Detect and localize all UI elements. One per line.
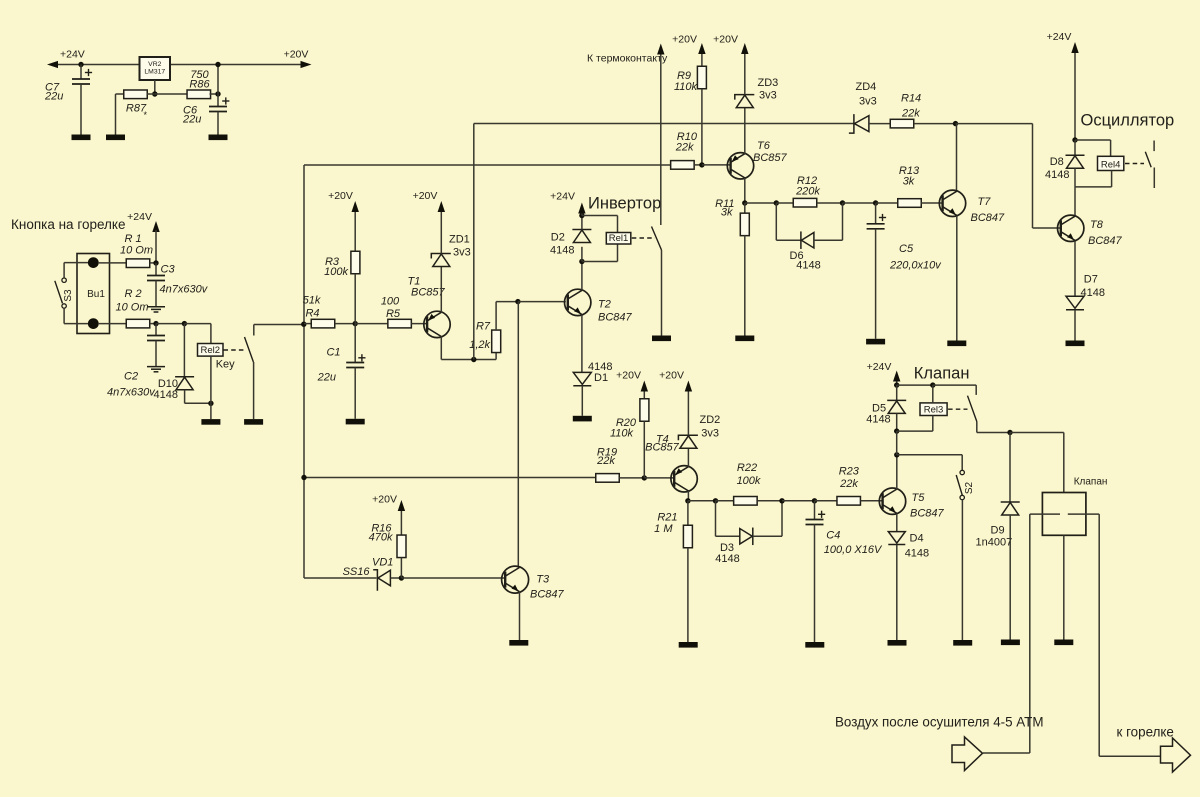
svg-text:D7: D7 bbox=[1084, 274, 1098, 286]
capacitor C3 bbox=[147, 276, 165, 281]
wire R87 left bbox=[116, 93, 125, 95]
wire R22 right to node bbox=[757, 500, 782, 502]
svg-text:C2: C2 bbox=[124, 371, 138, 383]
ground S2 bbox=[953, 640, 972, 646]
svg-text:R 2: R 2 bbox=[124, 288, 141, 300]
diode D7 bbox=[1066, 296, 1084, 309]
svg-text:10 Om: 10 Om bbox=[120, 245, 153, 257]
ground T5 D4 bbox=[888, 640, 907, 646]
svg-text:100k: 100k bbox=[737, 475, 761, 487]
resistor R87 bbox=[124, 90, 148, 99]
svg-text:BC847: BC847 bbox=[598, 312, 633, 324]
wire Rel1 contact to ground bbox=[661, 250, 663, 336]
svg-text:D2: D2 bbox=[551, 232, 565, 244]
node R22 left bbox=[713, 498, 718, 503]
wire R2 to node bbox=[150, 323, 156, 325]
power arrow +24V left bbox=[47, 61, 58, 68]
wire +24V arrow inverter bbox=[581, 214, 583, 216]
wire D3 right link bbox=[753, 535, 782, 537]
transistor T4 bbox=[671, 466, 697, 492]
svg-text:R22: R22 bbox=[737, 462, 757, 474]
capacitor C4 bbox=[806, 520, 824, 525]
relay Rel1 bbox=[606, 233, 631, 245]
wire R86 right bbox=[210, 93, 219, 95]
wire R4 to node bbox=[335, 323, 355, 325]
node T4 collector bbox=[685, 498, 690, 503]
switch S2 blade bbox=[956, 475, 962, 495]
dashed Rel1 to contact bbox=[632, 237, 655, 239]
wire ZD2 to +20V bbox=[687, 392, 689, 436]
wire S3 to Bu1 bottom pin bbox=[64, 323, 88, 325]
ground C1 bbox=[346, 419, 365, 425]
wire Rel1 top bbox=[617, 216, 619, 233]
power arrow +20V ZD1 bbox=[438, 201, 445, 212]
resistor R10 bbox=[671, 161, 695, 170]
svg-text:+20V: +20V bbox=[372, 494, 397, 506]
regulator VR2 LM317 bbox=[140, 57, 171, 80]
svg-text:D1: D1 bbox=[594, 372, 608, 384]
wire Key top to R4 node bbox=[254, 324, 304, 326]
svg-text:ZD1: ZD1 bbox=[449, 234, 470, 246]
svg-text:T5: T5 bbox=[912, 492, 926, 504]
power arrow +24V осц bbox=[1071, 42, 1078, 53]
svg-text:4n7x630v: 4n7x630v bbox=[160, 284, 209, 296]
ground D7 bbox=[1066, 341, 1085, 347]
node T1 collector bus bbox=[471, 357, 476, 362]
svg-text:Key: Key bbox=[216, 359, 235, 371]
wire T6 collector down bbox=[744, 178, 746, 203]
power arrow +24V Bu1 bbox=[152, 221, 159, 232]
svg-text:470k: 470k bbox=[369, 532, 393, 544]
wire C1 top bbox=[354, 324, 356, 363]
svg-text:1 M: 1 M bbox=[654, 523, 673, 535]
svg-text:LM317: LM317 bbox=[144, 69, 165, 76]
svg-text:C4: C4 bbox=[826, 530, 840, 542]
svg-text:R4: R4 bbox=[305, 308, 319, 320]
capacitor C1 bbox=[346, 363, 364, 368]
wire feedback bus to R10 bbox=[304, 164, 672, 166]
svg-text:4148: 4148 bbox=[866, 414, 890, 426]
contact S3 top bbox=[62, 278, 66, 282]
ground C5 bbox=[866, 339, 885, 345]
relay Rel2 bbox=[198, 344, 224, 357]
diode D6 bbox=[801, 231, 814, 249]
wire осц contact bottom stub bbox=[1153, 168, 1155, 189]
wire клапан contact top stub bbox=[975, 385, 977, 395]
svg-text:BC857: BC857 bbox=[645, 442, 680, 454]
wire C3 to earth bbox=[155, 281, 157, 307]
power arrow +24V клапан bbox=[893, 371, 900, 382]
node VD1 R16 bbox=[399, 575, 404, 580]
node R12 left bbox=[774, 200, 779, 205]
wire термоконтакт down to contact bbox=[660, 55, 662, 226]
resistor R2 bbox=[126, 319, 150, 328]
diode D9 bbox=[1001, 502, 1020, 515]
svg-text:T7: T7 bbox=[978, 196, 992, 208]
svg-text:R86: R86 bbox=[189, 79, 210, 91]
node D2 anode bbox=[579, 259, 584, 264]
node R2 C2 bbox=[153, 321, 158, 326]
wire R1 to node bbox=[150, 262, 156, 264]
wire S2 link bbox=[897, 454, 962, 456]
svg-text:C3: C3 bbox=[161, 264, 176, 276]
svg-text:ZD4: ZD4 bbox=[856, 81, 877, 93]
diode D4 bbox=[888, 532, 905, 545]
wire bus to R19 bbox=[304, 477, 597, 479]
valve Клапан box bbox=[1042, 493, 1086, 536]
wire R16 to node bbox=[400, 558, 402, 578]
node T2 base bbox=[515, 299, 520, 304]
svg-text:3v3: 3v3 bbox=[453, 247, 471, 259]
wire +20V to R16 bbox=[400, 511, 402, 535]
wire S2 to ground bbox=[961, 500, 963, 640]
wire T1 collector down bbox=[440, 337, 442, 360]
wire R20 to node bbox=[643, 421, 645, 478]
wire R7 top bbox=[495, 302, 497, 330]
resistor R13 bbox=[898, 199, 922, 208]
svg-text:10 Om: 10 Om bbox=[115, 302, 148, 314]
svg-text:T6: T6 bbox=[757, 140, 771, 152]
wire D7 to ground bbox=[1074, 310, 1076, 341]
resistor R11 bbox=[740, 213, 749, 236]
svg-text:BC857: BC857 bbox=[411, 287, 446, 299]
svg-text:+20V: +20V bbox=[284, 49, 309, 61]
svg-text:S3: S3 bbox=[63, 289, 74, 302]
wire bus up to top rail bbox=[473, 124, 475, 360]
wire C5 node to R13 bbox=[876, 202, 899, 204]
wire R23 to T5 base bbox=[861, 500, 883, 502]
wire Rel2 node to ground bbox=[210, 403, 212, 419]
power arrow +20V R20 bbox=[641, 381, 648, 392]
svg-text:+20V: +20V bbox=[659, 370, 684, 382]
wire R7 to T2 base node bbox=[496, 301, 518, 303]
svg-text:T3: T3 bbox=[536, 574, 550, 586]
svg-text:4148: 4148 bbox=[1081, 287, 1105, 299]
wire node to Rel1 top bbox=[582, 215, 618, 217]
wire клапан contact down bbox=[976, 422, 978, 433]
svg-text:+20V: +20V bbox=[713, 34, 738, 46]
svg-text:3v3: 3v3 bbox=[759, 90, 777, 102]
svg-text:+24V: +24V bbox=[1047, 31, 1072, 43]
node +24V inverter bbox=[579, 213, 584, 218]
svg-text:220k: 220k bbox=[795, 186, 820, 198]
wire D3 right leg bbox=[781, 501, 783, 537]
wire T2 emitter down bbox=[581, 315, 583, 373]
wire node to T2 base bbox=[518, 301, 566, 303]
node D9 top bbox=[1007, 430, 1012, 435]
wire D8 down bbox=[1074, 140, 1076, 155]
svg-text:3v3: 3v3 bbox=[701, 428, 719, 440]
wire +20V to R20 bbox=[643, 392, 645, 400]
node D5 bottom bbox=[894, 428, 899, 433]
resistor R12 bbox=[793, 198, 817, 207]
svg-text:4148: 4148 bbox=[905, 548, 929, 560]
wire D3 left link bbox=[716, 535, 741, 537]
svg-text:100k: 100k bbox=[324, 266, 348, 278]
ground Rel1 contact bbox=[652, 336, 671, 342]
wire Rel2 top bbox=[210, 324, 212, 344]
svg-text:D4: D4 bbox=[910, 533, 924, 545]
zener ZD1 bbox=[431, 254, 451, 267]
resistor R7 bbox=[492, 330, 501, 353]
wire T2 base node down to T3 collector bbox=[517, 302, 519, 568]
svg-text:Воздух после осушителя 4-5 АТМ: Воздух после осушителя 4-5 АТМ bbox=[835, 715, 1044, 730]
wire air inlet to arrow bbox=[983, 752, 1030, 754]
svg-text:Кнопка на горелке: Кнопка на горелке bbox=[11, 217, 125, 232]
wire node to R12 left bbox=[776, 202, 793, 204]
wire node to T6 base bbox=[702, 164, 731, 166]
plus C4 bbox=[818, 511, 825, 518]
wire C4 down bbox=[814, 501, 816, 520]
contact S2 top bbox=[960, 470, 964, 474]
node T6 base bbox=[699, 162, 704, 167]
diode D2 bbox=[572, 230, 591, 243]
wire D6 right leg bbox=[842, 203, 844, 240]
wire T6 emitter to ZD3 bbox=[744, 108, 746, 154]
wire D8 node to T8 collector bbox=[1074, 187, 1076, 216]
node C5 top bbox=[873, 200, 878, 205]
wire top rail bbox=[474, 123, 854, 125]
wire node to R86 bbox=[155, 93, 188, 95]
diode D5 bbox=[887, 400, 906, 413]
wire D3 left leg bbox=[715, 501, 717, 537]
ground T7 bbox=[947, 341, 966, 347]
wire valve bottom bbox=[1063, 535, 1065, 639]
svg-text:Rel2: Rel2 bbox=[200, 345, 220, 356]
wire R5 to T1 base bbox=[411, 323, 427, 325]
wire D10 node to Rel2 bbox=[184, 323, 211, 325]
svg-text:3k: 3k bbox=[903, 176, 915, 188]
wire node to C4 node bbox=[782, 500, 815, 502]
svg-text:1,2k: 1,2k bbox=[469, 339, 490, 351]
node T7 collector bbox=[953, 121, 958, 126]
wire Bu1 top pin to R1 bbox=[99, 262, 127, 264]
capacitor C5 bbox=[867, 224, 885, 229]
svg-text:К термоконтакту: К термоконтакту bbox=[587, 53, 668, 65]
wire ZD4 to R14 bbox=[869, 123, 890, 125]
svg-text:T2: T2 bbox=[598, 299, 611, 311]
svg-text:4148: 4148 bbox=[796, 260, 820, 272]
svg-text:Инвертор: Инвертор bbox=[588, 195, 661, 213]
wire R13 to T7 base bbox=[921, 202, 943, 204]
ground D9 bbox=[1001, 640, 1020, 646]
wire T1 collector to R7 bottom bbox=[441, 359, 496, 361]
svg-text:+24V: +24V bbox=[60, 49, 85, 61]
svg-text:BC847: BC847 bbox=[910, 508, 945, 520]
power arrow +20V R9 bbox=[698, 43, 705, 54]
wire +24V to D5 node bbox=[896, 382, 898, 386]
node D10 top bbox=[182, 321, 187, 326]
wire node to Rel3 top node bbox=[897, 384, 933, 386]
ground C7 bbox=[72, 135, 91, 141]
wire +20V to R3 bbox=[354, 212, 356, 251]
wire outlet to burner arrow bbox=[1099, 755, 1160, 757]
svg-text:22u: 22u bbox=[182, 114, 201, 126]
plus C5 bbox=[879, 214, 886, 221]
resistor R9 bbox=[697, 66, 706, 89]
svg-text:22k: 22k bbox=[596, 455, 615, 467]
power arrow +20V R16 bbox=[398, 500, 405, 511]
diode D1 bbox=[573, 372, 591, 385]
svg-text:22u: 22u bbox=[44, 91, 63, 103]
power arrow +20V ZD3 bbox=[741, 43, 748, 54]
wire D8 anode down bbox=[1074, 168, 1076, 187]
plus C7 bbox=[85, 69, 92, 76]
wire Rel1 bottom link bbox=[582, 261, 618, 263]
transistor T5 bbox=[879, 488, 905, 514]
ground valve bbox=[1054, 640, 1073, 646]
relay Rel4 bbox=[1098, 156, 1124, 170]
wire Rel2 bottom bbox=[210, 356, 212, 403]
wire T8 base corner down bbox=[1032, 124, 1034, 228]
node C7 top bbox=[78, 62, 83, 67]
plus C1 bbox=[358, 354, 365, 361]
wire T2 collector up bbox=[581, 262, 583, 291]
svg-text:Клапан: Клапан bbox=[1074, 476, 1108, 487]
arrow к горелке bbox=[1161, 738, 1191, 772]
wire C7 top bbox=[80, 65, 82, 80]
svg-text:Осциллятор: Осциллятор bbox=[1081, 112, 1175, 130]
wire C2 top bbox=[155, 324, 157, 336]
node R22 right bbox=[779, 498, 784, 503]
wire D9 down bbox=[1009, 433, 1011, 503]
wire C1 to ground bbox=[354, 368, 356, 419]
svg-text:VD1: VD1 bbox=[372, 557, 393, 569]
svg-text:R14: R14 bbox=[901, 93, 921, 105]
ground R11 bbox=[735, 336, 754, 342]
resistor R86 bbox=[187, 90, 211, 99]
wire VR2 adj down bbox=[154, 80, 156, 94]
switch Rel3 contact blade bbox=[968, 396, 977, 422]
svg-text:ZD3: ZD3 bbox=[758, 77, 779, 89]
ground R21 bbox=[679, 642, 698, 648]
resistor R14 bbox=[890, 119, 914, 128]
zener ZD2 bbox=[678, 435, 698, 448]
svg-text:D9: D9 bbox=[991, 525, 1005, 537]
svg-text:*: * bbox=[144, 110, 148, 120]
wire Bu1 bottom pin to R2 bbox=[99, 323, 127, 325]
svg-text:BC857: BC857 bbox=[753, 152, 788, 164]
resistor R3 bbox=[351, 251, 360, 274]
wire D5 down bbox=[896, 385, 898, 400]
wire D4 to ground bbox=[896, 545, 898, 640]
node R20 T4 base bbox=[642, 475, 647, 480]
diode D3 bbox=[740, 528, 753, 546]
wire node to R22 left bbox=[716, 500, 735, 502]
wire Bu1 top pin left bbox=[64, 262, 88, 264]
wire +24V down bbox=[1074, 53, 1076, 140]
wire D5 anode down bbox=[896, 413, 898, 431]
node VR2 adj bbox=[152, 91, 157, 96]
switch Rel4 contact blade bbox=[1145, 152, 1151, 168]
wire C2 to earth bbox=[155, 341, 157, 367]
capacitor C7 bbox=[72, 79, 90, 84]
wire Rel4 top bbox=[1110, 140, 1112, 156]
wire left vertical bus bbox=[303, 165, 305, 578]
svg-text:T8: T8 bbox=[1090, 219, 1104, 231]
svg-text:1n4007: 1n4007 bbox=[976, 537, 1013, 549]
svg-text:100,0 X16V: 100,0 X16V bbox=[824, 544, 883, 556]
node Rel2 bottom bbox=[208, 401, 213, 406]
diode D10 bbox=[175, 377, 194, 390]
wire VD1 to node bbox=[391, 577, 402, 579]
wire D10 bottom bbox=[184, 390, 186, 404]
svg-text:BC847: BC847 bbox=[971, 212, 1006, 224]
diode D8 bbox=[1066, 155, 1085, 168]
wire Rel3 coil top bbox=[932, 385, 934, 403]
wire S2 top bbox=[961, 455, 963, 471]
node R11 top bbox=[742, 200, 747, 205]
svg-text:4148: 4148 bbox=[550, 245, 574, 257]
arrow Воздух inlet bbox=[952, 737, 983, 771]
wire R11 down bbox=[744, 203, 746, 214]
svg-text:ZD2: ZD2 bbox=[700, 414, 721, 426]
wire node to T3 base bbox=[401, 577, 505, 579]
wire T7 collector up bbox=[956, 124, 958, 191]
wire +24V rail to +20V rail bbox=[58, 64, 306, 66]
node rail C6 bbox=[215, 62, 220, 67]
svg-text:4n7x630v: 4n7x630v bbox=[107, 387, 156, 399]
wire valve inner right bbox=[1068, 513, 1099, 515]
node D5 top bbox=[894, 382, 899, 387]
node R12 right bbox=[840, 200, 845, 205]
wire R19 to node bbox=[619, 477, 644, 479]
contact S2 bottom bbox=[960, 495, 964, 499]
svg-text:Rel3: Rel3 bbox=[924, 405, 944, 416]
wire rail to C6 node bbox=[217, 65, 219, 95]
transistor T8 bbox=[1058, 215, 1084, 241]
svg-text:C5: C5 bbox=[899, 243, 914, 255]
resistor R16 bbox=[397, 535, 406, 558]
node C6 top bbox=[215, 91, 220, 96]
relay Rel3 bbox=[920, 403, 947, 416]
node R3 C1 R5 bbox=[353, 321, 358, 326]
wire corner to T8 base bbox=[1033, 227, 1061, 229]
connector Bu1 bbox=[77, 254, 110, 334]
svg-text:3k: 3k bbox=[721, 207, 733, 219]
svg-text:4148: 4148 bbox=[154, 389, 178, 401]
ground Rel2 bbox=[201, 419, 220, 425]
svg-text:R7: R7 bbox=[476, 321, 491, 333]
wire valve outlet down bbox=[1098, 514, 1100, 756]
schottky VD1 SS16 bbox=[373, 570, 390, 591]
ground earth C3 bbox=[147, 307, 165, 312]
wire ZD1 to +20V bbox=[440, 212, 442, 254]
wire осц contact top stub bbox=[1153, 141, 1155, 152]
svg-text:22k: 22k bbox=[901, 108, 920, 120]
wire T5 collector up bbox=[896, 455, 898, 490]
wire R7 bottom bbox=[495, 353, 497, 360]
zener ZD4 bbox=[849, 114, 869, 133]
resistor R22 bbox=[734, 497, 758, 506]
switch Key blade bbox=[245, 337, 254, 362]
svg-text:BC847: BC847 bbox=[1088, 235, 1123, 247]
resistor R4 bbox=[311, 319, 335, 328]
switch Rel1 contact blade bbox=[652, 227, 662, 251]
wire Key contact to ground bbox=[253, 362, 255, 419]
wire contact to D9 node bbox=[977, 432, 1010, 434]
wire T1 emitter to ZD1 bbox=[440, 267, 442, 313]
node T5 collector S2 bbox=[894, 452, 899, 457]
svg-text:+20V: +20V bbox=[672, 34, 697, 46]
wire node to T8 base corner bbox=[956, 123, 1033, 125]
wire Key contact top stub bbox=[253, 325, 255, 336]
svg-text:D8: D8 bbox=[1050, 156, 1064, 168]
wire Rel3 coil bottom bbox=[932, 416, 934, 432]
wire D10 to Rel2 bottom node bbox=[185, 402, 211, 404]
ground C4 bbox=[805, 642, 824, 648]
svg-text:4148: 4148 bbox=[1045, 169, 1069, 181]
